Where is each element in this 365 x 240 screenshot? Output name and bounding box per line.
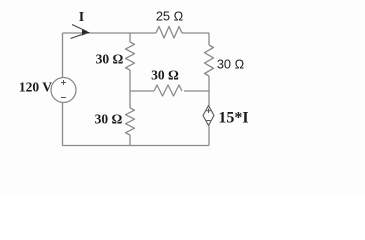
wire: top-left horizontal from source to 25ohm resistor — [63, 32, 157, 34]
wire: left vertical above 120V source — [62, 33, 64, 78]
wire: left vertical below 120V source — [62, 103, 64, 146]
svg-text:30 Ω: 30 Ω — [95, 112, 123, 127]
dependent source plus sign — [206, 109, 210, 114]
voltage source V1 circle (120 V) — [51, 78, 76, 103]
wire: right vertical below diamond — [208, 126, 210, 146]
svg-text:I: I — [79, 10, 84, 25]
wire: top-right horizontal from 25ohm to right corner — [182, 32, 209, 34]
resistor R-30 middle horizontal zigzag — [154, 85, 182, 96]
wire: middle horizontal right stub — [184, 90, 209, 92]
svg-text:15*I: 15*I — [218, 110, 248, 127]
svg-text:25 Ω: 25 Ω — [156, 9, 184, 24]
wire: middle branch bottom stub — [129, 135, 131, 146]
svg-text:120 V: 120 V — [19, 80, 52, 95]
resistor R-30 lower middle vertical zigzag — [126, 108, 135, 135]
resistor R-25 zigzag (top, 25 ohm) — [156, 27, 182, 39]
wire: middle branch top stub — [129, 33, 131, 42]
svg-text:30 Ω: 30 Ω — [151, 68, 179, 83]
wire: bottom horizontal — [63, 145, 210, 147]
resistor R-30 upper middle vertical zigzag — [126, 42, 135, 70]
voltage source V1 minus sign — [61, 97, 66, 99]
voltage source V1 plus sign — [61, 80, 211, 121]
resistor R-30 right vertical zigzag — [205, 45, 214, 76]
current arrow I barbs — [71, 25, 88, 39]
svg-text:30 Ω: 30 Ω — [217, 57, 245, 72]
current arrow I head — [82, 30, 90, 36]
wire: middle branch between resistors — [129, 70, 131, 108]
svg-text:30 Ω: 30 Ω — [96, 52, 124, 67]
dependent source diamond (15*I) — [203, 106, 214, 126]
wire: right vertical top stub — [208, 33, 210, 45]
dependent source minus sign — [207, 120, 211, 122]
wire: right vertical between 30ohm and diamond — [208, 76, 210, 106]
wire: middle horizontal left stub — [130, 90, 154, 92]
